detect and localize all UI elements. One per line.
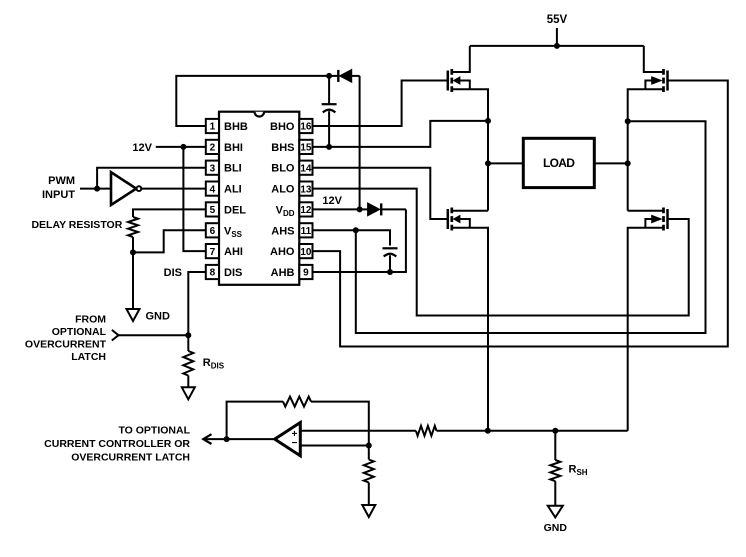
svg-text:AHI: AHI (224, 246, 243, 258)
svg-text:DEL: DEL (224, 204, 246, 216)
svg-text:AHS: AHS (271, 225, 294, 237)
pin 14 box (299, 161, 312, 175)
node 12V-VDD junction (357, 206, 363, 212)
inverter U2 (111, 172, 141, 205)
wire LOAD right (593, 162, 627, 164)
svg-text:11: 11 (301, 226, 312, 237)
svg-text:12V: 12V (322, 195, 342, 207)
resistor RSH (550, 431, 560, 506)
ground below op-amp resistor (362, 505, 375, 517)
svg-text:10: 10 (300, 247, 312, 258)
svg-text:FROM: FROM (75, 314, 106, 326)
wire shunt rail (437, 430, 628, 432)
transistor Q4 lower-right NMOS (628, 208, 668, 431)
svg-text:BHS: BHS (271, 142, 294, 154)
svg-text:9: 9 (303, 268, 309, 279)
wire DIS pin8 down to latch node (188, 272, 206, 335)
node Q2 source junction (625, 118, 631, 124)
svg-text:DELAY RESISTOR: DELAY RESISTOR (31, 219, 122, 231)
svg-text:GND: GND (544, 522, 568, 534)
transistor Q2 upper-right NMOS (628, 46, 668, 121)
svg-text:55V: 55V (547, 14, 568, 26)
svg-text:PWM: PWM (48, 175, 75, 187)
node inverting input junction (366, 443, 372, 449)
pin 7 box (206, 244, 219, 258)
svg-text:DIS: DIS (164, 267, 182, 279)
pin 15 box (299, 140, 312, 154)
wire to VSS pin6 (133, 230, 206, 252)
wire 12V to BHI pin2 and AHI pin7 (156, 146, 206, 148)
svg-text:BLO: BLO (271, 163, 295, 175)
wire inverting input (301, 445, 369, 447)
wire 12V rail vertical to VDD (359, 76, 361, 210)
node C2-AHB junction (387, 269, 393, 275)
svg-text:TO OPTIONAL: TO OPTIONAL (118, 425, 190, 437)
node output junction (224, 436, 230, 442)
resistor RDIS (183, 335, 193, 387)
IC U1 body (H-bridge driver) (219, 112, 299, 285)
svg-text:16: 16 (300, 122, 312, 133)
resistor R-delay (128, 209, 206, 252)
node BHS-source junction (485, 118, 491, 124)
svg-text:AHB: AHB (271, 267, 295, 279)
wire 55V stub (556, 28, 558, 46)
ground below RDIS (182, 387, 195, 399)
node DIS-latch junction (185, 332, 191, 338)
wire op-amp output (204, 438, 275, 440)
capacitor C2 bootstrap A (383, 248, 398, 272)
arrow from latch input (112, 330, 119, 341)
wire to LOAD left (488, 162, 523, 164)
svg-text:−: − (291, 438, 297, 449)
svg-text:12V: 12V (132, 142, 152, 154)
node 12V-BHI junction (180, 144, 186, 150)
node Q3 source-rail junction (485, 428, 491, 434)
svg-text:LOAD: LOAD (543, 156, 575, 170)
svg-text:15: 15 (300, 143, 312, 154)
svg-text:BLI: BLI (224, 163, 242, 175)
svg-text:14: 14 (300, 163, 312, 174)
svg-text:ALI: ALI (224, 184, 242, 196)
svg-text:OPTIONAL: OPTIONAL (52, 326, 107, 338)
wire AHS return to Q2 source (356, 121, 706, 333)
pin 16 box (299, 119, 312, 133)
node RSH junction (552, 428, 558, 434)
resistor R-sense input (301, 426, 437, 436)
pin 5 box (206, 202, 219, 216)
wire top rail (470, 45, 644, 47)
pin 9 box (299, 265, 312, 279)
capacitor C1 bootstrap B (322, 76, 337, 147)
pin 8 box (206, 265, 219, 279)
svg-text:BHI: BHI (224, 142, 243, 154)
pin 10 box (299, 244, 312, 258)
wire BLO pin14 to Q3 gate (313, 168, 448, 219)
wire PWM to BLI pin3 (97, 168, 206, 189)
svg-text:7: 7 (210, 247, 216, 258)
wire AHO pin10 to Q2 gate (313, 81, 728, 347)
wire inverter output to ALI pin4 (141, 188, 206, 190)
node LOAD left junction (485, 160, 491, 166)
resistor R-gnd inverting (364, 446, 374, 506)
svg-text:INPUT: INPUT (42, 189, 75, 201)
svg-text:1: 1 (210, 122, 216, 133)
wire ALO pin13 to Q4 gate (313, 189, 689, 316)
pin 12 box (299, 202, 312, 216)
svg-text:ALO: ALO (271, 184, 295, 196)
pin 13 box (299, 182, 312, 196)
wire to GND symbol (132, 252, 134, 309)
wire left node column (487, 121, 489, 211)
node 55V rail junction (554, 43, 560, 49)
node AHS junction (353, 227, 359, 233)
svg-text:GND: GND (146, 310, 171, 322)
arrow output to latch (203, 434, 211, 444)
wire right node column (627, 121, 629, 211)
svg-text:13: 13 (300, 184, 312, 195)
svg-text:DIS: DIS (224, 267, 242, 279)
op-amp U3 comparator (275, 423, 301, 456)
pin 11 box (299, 223, 312, 237)
pin 2 box (206, 140, 219, 154)
load box (523, 138, 594, 187)
svg-text:OVERCURRENT: OVERCURRENT (25, 339, 107, 351)
svg-text:5: 5 (210, 205, 216, 216)
node C1-BHS junction (326, 144, 332, 150)
node PWM junction (94, 186, 100, 192)
svg-text:2: 2 (210, 143, 216, 154)
svg-text:BHO: BHO (270, 121, 295, 133)
wire BHS pin15 to half-bridge B source (313, 121, 489, 147)
svg-text:LATCH: LATCH (71, 351, 106, 363)
pin 4 box (206, 182, 219, 196)
wire BHO pin16 to Q1 gate (313, 81, 448, 127)
resistor R-feedback (227, 397, 369, 446)
svg-text:OVERCURRENT LATCH: OVERCURRENT LATCH (71, 452, 190, 464)
svg-text:BHB: BHB (224, 121, 248, 133)
wire AHS pin11 to capacitor C2 (313, 230, 391, 245)
transistor Q3 lower-left NMOS (448, 208, 488, 431)
svg-text:3: 3 (210, 163, 216, 174)
diode D2 bootstrap A (cathode right) (360, 203, 406, 216)
wire BHB loop pin1 to bootstrap node (176, 76, 329, 126)
ground below RSH (548, 506, 563, 518)
ground GND left (127, 309, 140, 321)
label FROM OPTIONAL OVERCURRENT LATCH (25, 314, 107, 364)
wire PWM input (80, 188, 110, 190)
pin 3 box (206, 161, 219, 175)
pin 1 box (206, 119, 219, 133)
diode D1 bootstrap B (cathode left) (329, 70, 360, 83)
transistor Q1 upper-left NMOS (448, 46, 488, 121)
node delay resistor bottom (130, 249, 136, 255)
wire latch input (119, 334, 189, 336)
node LOAD right junction (625, 160, 631, 166)
node bootstrap-B top (326, 73, 332, 79)
svg-text:AHO: AHO (270, 246, 295, 258)
svg-text:6: 6 (210, 226, 216, 237)
svg-text:12: 12 (300, 205, 312, 216)
svg-text:8: 8 (210, 268, 216, 279)
svg-text:4: 4 (210, 184, 216, 195)
wire D2 cathode down to AHB row (313, 209, 406, 272)
label TO OPTIONAL CURRENT CONTROLLER OR OVERCURRENT LATCH (44, 425, 190, 464)
pin 6 box (206, 223, 219, 237)
svg-text:CURRENT CONTROLLER OR: CURRENT CONTROLLER OR (44, 438, 190, 450)
wire VDD pin12 (313, 208, 360, 210)
